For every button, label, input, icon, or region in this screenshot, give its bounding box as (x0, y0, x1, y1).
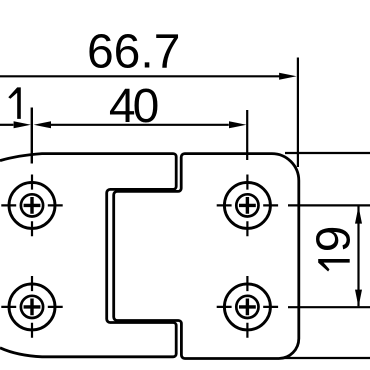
dim 1 text (8, 87, 20, 119)
svg-text:9: 9 (308, 226, 361, 253)
part top edge extension line to right (285, 152, 370, 154)
dim 19 arrow up (355, 206, 362, 223)
dim 1 arrow right-pointing (14, 121, 31, 128)
hole top-left: outer circle (9, 182, 55, 228)
dim 1/40 line left tail (0, 124, 13, 126)
hole bottom-left: center cross (24, 299, 41, 316)
hole center extension line left (31, 108, 33, 164)
dim 19 text (rotated) (308, 226, 361, 272)
hinge right leaf outline (114, 154, 299, 359)
hole bottom-left: outer circle (9, 284, 55, 330)
hole top-right: center lines (217, 175, 278, 237)
svg-text:66.7: 66.7 (87, 26, 180, 79)
hole top-left: inner circle (21, 194, 43, 216)
hole top-right: center cross (239, 197, 256, 214)
hole top-left: center lines (1, 175, 62, 237)
dim 19 line (357, 207, 359, 307)
dim 19 extension line top (288, 204, 370, 206)
hole top-left: center cross (24, 197, 41, 214)
hole bottom-right: outer circle (224, 284, 270, 330)
hole bottom-right: center cross (239, 299, 256, 316)
hole bottom-right: inner circle (236, 296, 258, 318)
dim 40 arrow right-pointing (229, 121, 246, 128)
hole top-right: inner circle (236, 194, 258, 216)
hole top-right: outer circle (224, 182, 270, 228)
hole bottom-left: center lines (1, 276, 62, 338)
dim 66.7 line (0, 75, 280, 77)
dim 19 extension line bottom (288, 306, 370, 308)
dim 66.7 arrow right (279, 73, 297, 80)
hole bottom-left: inner circle (21, 296, 43, 318)
hole bottom-right: center lines (217, 276, 278, 338)
dim 40 arrow left-pointing (34, 121, 51, 128)
dim 40 extension line right (246, 110, 248, 160)
dim 66.7 extension line right (297, 58, 299, 168)
part bottom edge extension line to right (283, 357, 370, 359)
dim 40 line (51, 124, 229, 126)
dim 19 arrow down (355, 290, 362, 307)
hinge left leaf outline (0, 154, 176, 357)
